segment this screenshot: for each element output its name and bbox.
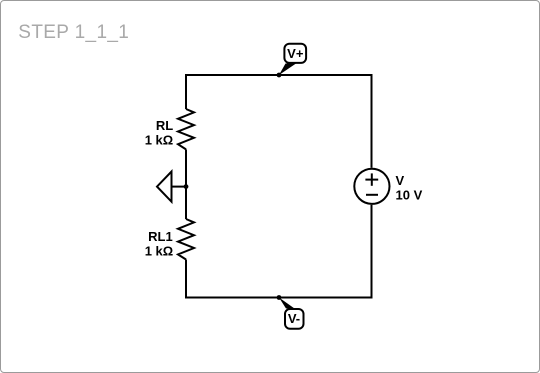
svg-text:RL: RL <box>156 118 173 133</box>
svg-text:RL1: RL1 <box>148 229 173 244</box>
svg-text:1 kΩ: 1 kΩ <box>145 132 174 147</box>
svg-text:V-: V- <box>288 311 300 326</box>
svg-text:1 kΩ: 1 kΩ <box>145 243 174 258</box>
svg-text:10 V: 10 V <box>396 187 423 202</box>
svg-text:STEP 1_1_1: STEP 1_1_1 <box>18 22 129 43</box>
svg-text:V: V <box>396 173 405 188</box>
svg-text:V+: V+ <box>287 46 304 61</box>
